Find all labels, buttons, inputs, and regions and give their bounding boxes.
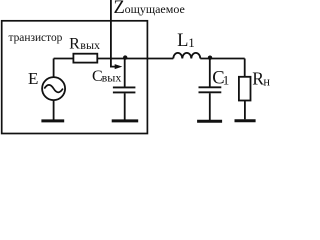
wire inductor to load corner	[200, 58, 244, 60]
wire C1 top lead	[209, 59, 211, 87]
ground under C1	[197, 120, 222, 123]
svg-text:L: L	[177, 31, 188, 51]
svg-text:ощущаемое: ощущаемое	[125, 2, 185, 16]
wire Cvyh top lead	[124, 59, 126, 87]
inductor L1 coil	[173, 53, 200, 59]
ground under Rn	[235, 119, 256, 122]
resistor Rn body	[239, 77, 251, 101]
resistor Rvyh body	[73, 54, 97, 63]
svg-text:Z: Z	[114, 0, 125, 18]
svg-text:1: 1	[223, 73, 230, 88]
wire Rn bottom lead	[244, 101, 246, 120]
node dot L1/C1	[208, 56, 212, 60]
svg-text:E: E	[28, 69, 38, 88]
wire E source bottom lead	[53, 100, 55, 119]
capacitor Cvyh plates	[113, 87, 135, 92]
Z probe arrowhead	[115, 64, 123, 69]
svg-text:R: R	[69, 35, 80, 52]
wire C1 bottom lead	[209, 93, 211, 120]
wire resistor to inductor	[98, 58, 174, 60]
svg-text:1: 1	[188, 35, 195, 50]
sine wave inside E	[44, 85, 63, 93]
Z probe line	[111, 0, 116, 67]
svg-text:транзистор: транзистор	[9, 32, 63, 44]
wire Cvyh bottom lead	[124, 93, 126, 119]
svg-text:вых: вых	[80, 38, 100, 52]
svg-text:н: н	[263, 74, 270, 88]
capacitor C1 plates	[199, 87, 222, 92]
transistor block box	[2, 21, 148, 134]
wire down to Rn	[244, 59, 246, 77]
node dot output	[123, 55, 127, 59]
wire main horizontal bus	[54, 58, 73, 60]
ground under E	[41, 119, 64, 122]
svg-text:R: R	[252, 69, 264, 89]
svg-text:вых: вых	[102, 70, 122, 84]
wire E source top lead	[53, 59, 55, 78]
source E	[42, 77, 65, 100]
ground under Cvyh	[112, 119, 139, 122]
